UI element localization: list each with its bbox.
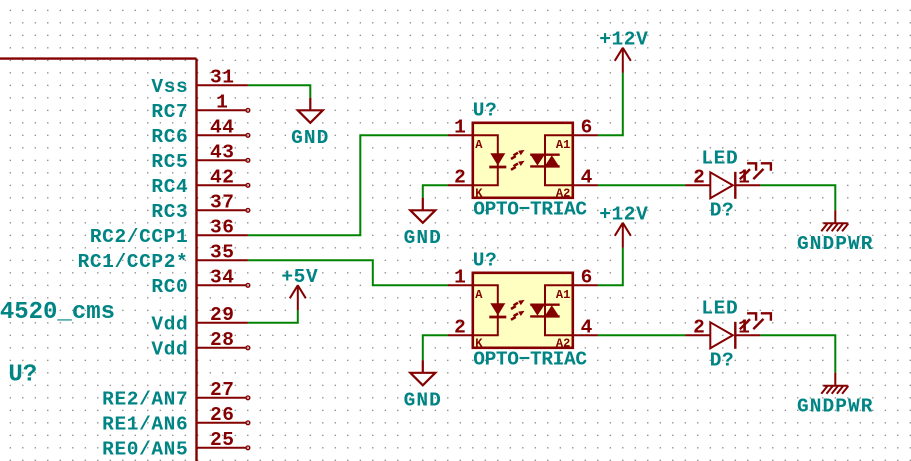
- svg-text:RE2/AN7: RE2/AN7: [102, 389, 188, 411]
- svg-text:Vss: Vss: [151, 76, 188, 98]
- svg-text:RC5: RC5: [151, 151, 188, 173]
- svg-text:26: 26: [210, 404, 235, 426]
- svg-text:42: 42: [210, 167, 235, 189]
- svg-text:27: 27: [210, 379, 235, 401]
- svg-text:RC3: RC3: [151, 201, 188, 223]
- svg-text:31: 31: [210, 67, 235, 89]
- svg-text:Vdd: Vdd: [151, 339, 188, 361]
- svg-text:29: 29: [210, 304, 235, 326]
- svg-text:RC4: RC4: [151, 176, 188, 198]
- svg-text:RC6: RC6: [151, 126, 188, 148]
- svg-text:+12V: +12V: [599, 203, 648, 225]
- svg-text:25: 25: [210, 429, 235, 451]
- svg-text:4520_cms: 4520_cms: [0, 299, 115, 326]
- svg-text:28: 28: [210, 329, 235, 351]
- svg-text:RC1/CCP2*: RC1/CCP2*: [78, 251, 189, 273]
- svg-text:RC2/CCP1: RC2/CCP1: [90, 226, 188, 248]
- svg-text:RC7: RC7: [151, 101, 188, 123]
- svg-text:1: 1: [216, 92, 228, 114]
- svg-text:U?: U?: [8, 361, 37, 388]
- svg-text:35: 35: [210, 242, 235, 264]
- svg-text:RE1/AN6: RE1/AN6: [102, 414, 188, 436]
- svg-text:RC0: RC0: [151, 276, 188, 298]
- svg-text:34: 34: [210, 267, 235, 289]
- svg-text:RE0/AN5: RE0/AN5: [102, 439, 188, 461]
- svg-text:+12V: +12V: [599, 28, 648, 50]
- svg-text:36: 36: [210, 217, 235, 239]
- svg-text:Vdd: Vdd: [151, 314, 188, 336]
- svg-text:37: 37: [210, 192, 235, 214]
- svg-text:44: 44: [210, 117, 235, 139]
- svg-text:43: 43: [210, 142, 235, 164]
- svg-text:+5V: +5V: [281, 266, 318, 288]
